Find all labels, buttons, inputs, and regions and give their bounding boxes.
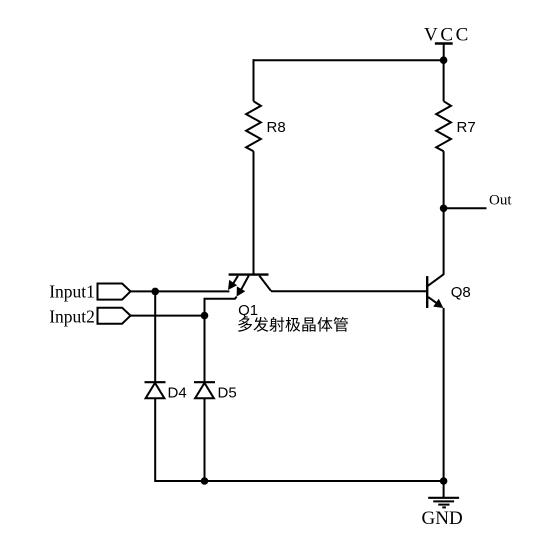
transistor Q8 emitter diagonal bbox=[428, 297, 441, 306]
node dot GND junction bbox=[440, 477, 448, 485]
wire R7 top lead bbox=[443, 60, 445, 101]
wire Q8 emitter down bbox=[443, 308, 445, 481]
ground symbol bars bbox=[428, 497, 459, 499]
text 多发射极晶体管 (multi-emitter transistor label, drawn as paths) bbox=[238, 317, 348, 332]
wire top rail bbox=[253, 59, 444, 61]
svg-text:Q1: Q1 bbox=[238, 302, 258, 319]
svg-text:R8: R8 bbox=[267, 119, 286, 136]
resistor R8 bbox=[246, 101, 261, 151]
diode D5 triangle bbox=[195, 383, 214, 398]
svg-text:GND: GND bbox=[422, 508, 463, 529]
transistor Q1 collector diagonal bbox=[259, 276, 271, 291]
diode D4 triangle bbox=[146, 383, 165, 398]
svg-text:Input2: Input2 bbox=[49, 306, 95, 326]
diode D5 cathode bar bbox=[194, 381, 215, 383]
arrowhead Q1 emitter 2 bbox=[237, 286, 246, 296]
svg-text:D5: D5 bbox=[218, 385, 237, 402]
node dot Out junction bbox=[440, 205, 448, 213]
node dot Input1 junction bbox=[151, 288, 159, 296]
wire R8 bottom to Q1 base bbox=[253, 151, 255, 274]
transistor Q1 emitter 2 diagonal bbox=[240, 276, 249, 293]
resistor R7 bbox=[436, 101, 451, 151]
transistor Q8 collector diagonal bbox=[428, 274, 444, 286]
svg-text:R7: R7 bbox=[457, 119, 476, 136]
node dot top rail junction bbox=[440, 56, 448, 64]
arrowhead Q1 emitter 1 bbox=[228, 280, 237, 290]
wire Out stub bbox=[444, 207, 487, 209]
wire bottom rail bbox=[205, 480, 444, 482]
wire D5 to bottom rail bbox=[204, 398, 206, 481]
transistor Q8 base bar bbox=[426, 276, 428, 308]
wire Input2 node to D5 bbox=[204, 316, 206, 383]
svg-text:Out: Out bbox=[489, 192, 512, 208]
wire Input1 bbox=[131, 290, 230, 292]
wire R8 top lead bbox=[253, 59, 255, 101]
svg-text:Input1: Input1 bbox=[49, 282, 95, 302]
wire Q8 collector vertical bbox=[443, 208, 445, 275]
transistor Q1 base bar bbox=[229, 273, 269, 275]
arrowhead Q8 emitter bbox=[433, 299, 443, 308]
node dot Input2 junction bbox=[201, 312, 209, 320]
wire D4 to bottom rail bbox=[155, 398, 204, 481]
wire VCC lead bbox=[443, 44, 445, 61]
svg-text:D4: D4 bbox=[168, 385, 187, 402]
transistor Q1 emitter 1 diagonal bbox=[231, 276, 238, 288]
svg-text:Q8: Q8 bbox=[451, 284, 471, 301]
VCC power symbol bbox=[435, 42, 453, 45]
node dot bottom rail D5 junction bbox=[201, 477, 209, 485]
diode D4 cathode bar bbox=[145, 381, 166, 383]
connector flag Input1 bbox=[98, 284, 131, 300]
wire GND lead bbox=[443, 481, 445, 498]
wire emitter2 step to Input2 node bbox=[205, 297, 237, 316]
wire R7 bottom lead bbox=[443, 151, 445, 208]
connector flag Input2 bbox=[98, 308, 131, 324]
wire Q1 collector to Q8 base bbox=[271, 290, 427, 292]
svg-text:VCC: VCC bbox=[424, 24, 471, 45]
wire Input1 node to D4 bbox=[154, 291, 156, 382]
wire Input2 bbox=[131, 315, 205, 317]
